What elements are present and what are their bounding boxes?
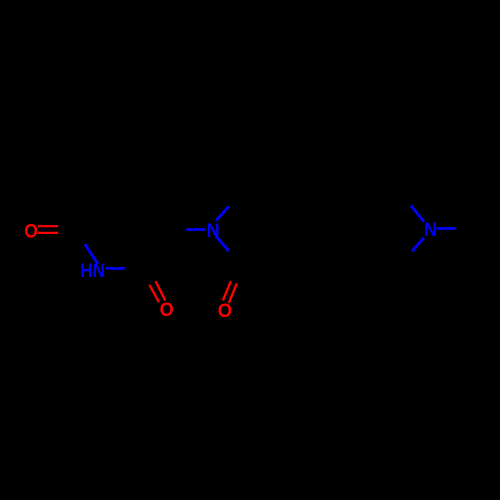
wire N2-C3 half-bond: [186, 228, 206, 231]
wire N3 ring half-bond lower: [412, 238, 424, 252]
double bond C6=O1 lower line: [38, 232, 58, 234]
wire N3-CH3 half-bond: [436, 227, 456, 230]
wire N2-C(=O) half-bond: [216, 236, 229, 251]
double bond C2=O2 line a: [156, 281, 166, 300]
wire N2-CH3 half-bond: [216, 206, 229, 220]
wire N1-C6 half-bond: [85, 244, 98, 264]
double bond C2=O2 line b: [149, 285, 159, 302]
wire N3 ring half-bond upper: [411, 206, 424, 222]
svg-text:N: N: [424, 219, 437, 241]
svg-text:O: O: [160, 298, 174, 320]
svg-text:O: O: [218, 301, 232, 323]
double bond C=O3 line a: [223, 281, 231, 301]
wire N1-C2 half-bond: [105, 267, 125, 270]
double bond C6=O1 upper line: [38, 225, 58, 227]
svg-text:O: O: [24, 220, 38, 242]
double bond C=O3 line b: [229, 284, 237, 304]
svg-text:HN: HN: [80, 259, 104, 281]
